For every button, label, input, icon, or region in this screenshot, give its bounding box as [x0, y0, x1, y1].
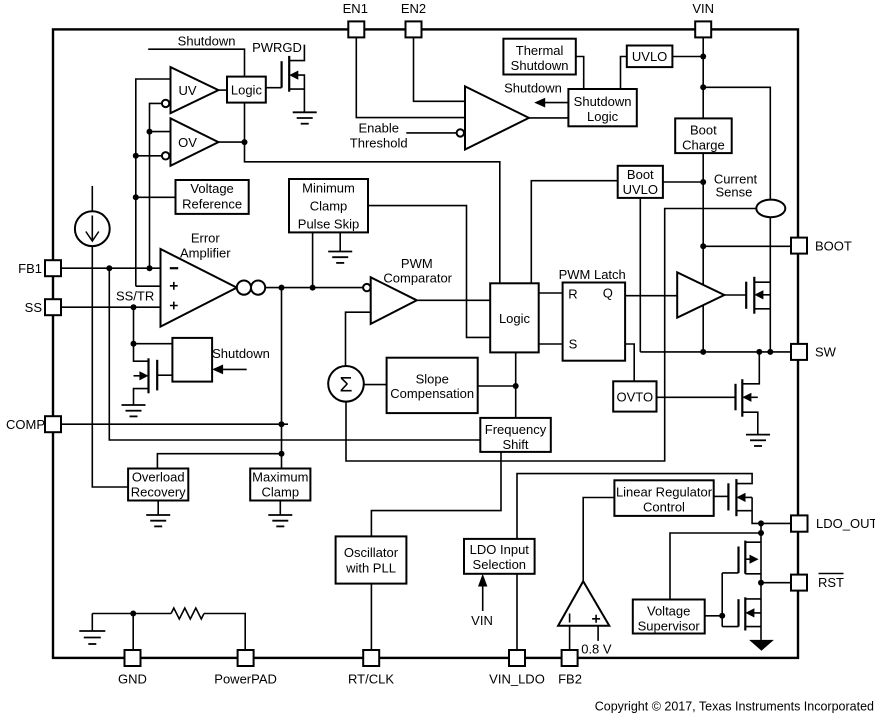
comparator U3 enable	[465, 86, 529, 149]
svg-text:PowerPAD: PowerPAD	[214, 672, 277, 687]
svg-text:Oscillator: Oscillator	[344, 545, 399, 560]
svg-text:Voltage: Voltage	[647, 604, 690, 619]
wire slope compensation output	[478, 385, 516, 387]
block LDO Input Selection	[464, 539, 535, 574]
wire shutdown FET drain	[134, 344, 149, 362]
wire voltage supervisor output to gates	[705, 573, 723, 627]
wire LDO FET source to LDO_OUT	[736, 497, 761, 523]
svg-text:SS: SS	[25, 300, 43, 315]
svg-text:Shutdown: Shutdown	[178, 34, 236, 49]
wire latch S side to OVTO	[625, 344, 634, 381]
svg-text:GND: GND	[118, 672, 147, 687]
comparator U4 input bubble	[363, 284, 370, 291]
svg-text:Frequency: Frequency	[485, 422, 547, 437]
svg-text:Shutdown: Shutdown	[511, 58, 569, 73]
wire EA output to PWM comparator	[265, 287, 363, 289]
svg-text:Logic: Logic	[499, 311, 531, 326]
svg-text:PWM: PWM	[401, 256, 433, 271]
gate driver triangle	[677, 272, 724, 317]
svg-text:UV: UV	[178, 83, 196, 98]
node SW junction 1	[700, 349, 706, 355]
wire BOOT to pin	[703, 245, 791, 247]
resistor R1 zigzag	[171, 608, 204, 619]
block Minimum Clamp Pulse Skip	[289, 179, 368, 232]
svg-text:Voltage: Voltage	[190, 181, 233, 196]
block Shutdown Logic	[568, 89, 636, 126]
op-amp U1 error amplifier	[161, 249, 237, 327]
wire OVTO output to low-side gate	[657, 396, 736, 398]
svg-text:FB2: FB2	[558, 672, 582, 687]
svg-text:OV: OV	[178, 135, 197, 150]
current source I1 arrow	[86, 216, 99, 242]
block Boot UVLO	[618, 166, 663, 198]
wire sigma to slope compensation	[364, 384, 387, 386]
wire maximum clamp ground stem	[279, 501, 281, 516]
node SS branch junction	[131, 304, 137, 310]
wire EN1 to enable comparator	[356, 37, 465, 117]
EA minus symbol	[170, 267, 178, 269]
block shutdown (SS discharge)	[172, 338, 212, 382]
wire shutdown arrow line	[541, 102, 568, 104]
comparator U6 FB2	[558, 581, 609, 626]
transistor Q5 LDO pass PMOS	[728, 479, 752, 516]
wire minimum clamp to EA output node	[312, 232, 314, 287]
svg-text:R: R	[568, 287, 577, 302]
pin RT/CLK	[363, 650, 379, 666]
pin VIN	[695, 21, 711, 37]
comparator UV input bubble	[162, 100, 169, 107]
wire OV output	[218, 141, 244, 143]
wire PWM comparator output	[417, 299, 490, 301]
wire LDO_OUT down the RST FET stack	[760, 523, 762, 640]
wire logic bottom to frequency shift	[515, 352, 517, 418]
wire SS shutdown branch	[134, 307, 173, 344]
wire UV input line A (VREF net)	[136, 79, 171, 286]
pin FB2	[562, 650, 578, 666]
EA gm output symbol circle 2	[251, 281, 265, 295]
pin GND	[125, 650, 141, 666]
wire UVLO to VIN rail	[672, 56, 703, 58]
EA plus symbol 1	[170, 282, 178, 290]
wire FB2 comparator output to linear regulator control	[583, 498, 614, 582]
wire oscillator to RT/CLK	[370, 584, 372, 650]
svg-text:RST: RST	[818, 575, 844, 590]
svg-text:SS/TR: SS/TR	[116, 289, 154, 304]
block Oscillator with PLL	[336, 536, 407, 583]
ground (GND pin area)	[79, 631, 105, 644]
svg-text:Slope: Slope	[416, 371, 449, 386]
svg-text:Compensation: Compensation	[390, 386, 474, 401]
node RST junction	[758, 580, 764, 586]
pin RST	[791, 575, 807, 591]
wire UV inverting line B (FB1 net)	[150, 103, 162, 268]
pin PowerPAD	[238, 650, 254, 666]
svg-text:Control: Control	[643, 499, 685, 514]
pin COMP	[45, 416, 61, 432]
ground (minimum clamp)	[328, 252, 352, 263]
svg-text:RT/CLK: RT/CLK	[348, 672, 394, 687]
node boot UVLO junction	[700, 179, 706, 185]
ground (overload recovery)	[146, 515, 170, 526]
node COMP junction	[279, 421, 285, 427]
arrow shutdown (into SS discharge box)	[212, 365, 247, 375]
node GND branch junction	[130, 611, 136, 617]
svg-text:Supervisor: Supervisor	[638, 618, 701, 633]
svg-text:UVLO: UVLO	[632, 49, 667, 64]
svg-text:Overload: Overload	[132, 470, 185, 485]
wire boot UVLO left to logic	[531, 181, 617, 284]
svg-text:VIN: VIN	[471, 613, 493, 628]
wire VIN rail vertical	[702, 37, 704, 352]
wire LDO_OUT to pin	[761, 522, 791, 524]
wire current sense output to summing node	[346, 209, 756, 462]
svg-text:OVTO: OVTO	[616, 389, 653, 404]
chip outline border	[53, 29, 798, 658]
node overload recovery branch junction	[279, 451, 285, 457]
svg-text:Reference: Reference	[182, 196, 242, 211]
ground (shutdown FET)	[122, 405, 146, 416]
wire thermal shutdown to shutdown logic	[576, 57, 584, 90]
svg-text:Enable: Enable	[358, 120, 398, 135]
FB2 comparator minus mark	[569, 614, 571, 623]
comparator OV input bubble	[162, 152, 169, 159]
block Logic U5	[490, 283, 539, 352]
node OV output junction	[242, 139, 248, 145]
wire shutdown FET source to ground	[134, 389, 149, 405]
transistor Q2 shutdown NMOS	[134, 358, 158, 393]
svg-text:VIN: VIN	[692, 1, 714, 16]
node EA output junction 1	[279, 285, 285, 291]
wire PWM comparator lower input from sigma	[346, 312, 371, 366]
svg-text:with PLL: with PLL	[345, 560, 396, 575]
svg-text:COMP: COMP	[6, 417, 45, 432]
svg-text:Pulse Skip: Pulse Skip	[298, 217, 359, 232]
comparator U3 input bubble	[457, 129, 464, 136]
svg-text:PWRGD: PWRGD	[252, 40, 302, 55]
wire FB1 branch to frequency shift	[109, 268, 480, 440]
wire OV top input	[150, 131, 171, 133]
svg-text:Clamp: Clamp	[262, 484, 300, 499]
svg-text:Logic: Logic	[587, 109, 619, 124]
svg-text:Comparator: Comparator	[383, 271, 452, 286]
node SW junction 2 (low-side drain)	[756, 349, 762, 355]
wire logic to latch S	[539, 343, 563, 345]
block Voltage Reference	[176, 180, 249, 214]
svg-text:Charge: Charge	[682, 138, 725, 153]
ground (PWRGD source)	[293, 112, 317, 123]
svg-text:0.8 V: 0.8 V	[581, 642, 612, 657]
wire resistor to PowerPAD	[204, 614, 245, 651]
svg-text:EN2: EN2	[401, 1, 426, 16]
node supervisor sense junction	[758, 530, 764, 536]
node FB1 branch junction	[106, 265, 112, 271]
current source I1	[75, 211, 110, 246]
node BOOT junction	[700, 243, 706, 249]
pin EN2	[406, 21, 422, 37]
svg-text:UVLO: UVLO	[623, 182, 658, 197]
block Thermal Shutdown	[503, 39, 575, 75]
svg-text:Amplifier: Amplifier	[180, 246, 231, 261]
pin SW	[791, 344, 807, 360]
node EA output junction 2 (min clamp)	[310, 285, 316, 291]
node supervisor output junction	[719, 613, 725, 619]
comparator U4 PWM	[371, 277, 417, 324]
wire VIN_LDO to LDO pass FET	[517, 474, 752, 650]
block PWM Latch	[563, 283, 626, 361]
svg-text:Clamp: Clamp	[310, 199, 348, 214]
transistor Q7 lower RST FET	[739, 597, 762, 630]
block Maximum Clamp	[250, 469, 310, 501]
arrow VIN into LDO input selection	[478, 574, 487, 611]
svg-text:Logic: Logic	[231, 82, 263, 97]
node FB1 EA input junction	[147, 265, 153, 271]
wire COMP pin	[61, 423, 288, 425]
wire GND pin branch	[132, 614, 134, 651]
pin LDO_OUT	[791, 515, 808, 531]
svg-text:Shutdown: Shutdown	[574, 94, 632, 109]
svg-text:Error: Error	[191, 231, 221, 246]
node VIN/current-sense junction	[700, 84, 706, 90]
wire LRC to LDO FET gate	[714, 495, 729, 497]
svg-text:Recovery: Recovery	[131, 484, 186, 499]
ground (maximum clamp)	[268, 515, 292, 526]
comparator UV	[171, 67, 219, 113]
block Frequency Shift	[480, 418, 551, 452]
svg-text:Minimum: Minimum	[302, 180, 355, 195]
wire VIN branch to current sense	[703, 87, 770, 199]
svg-text:Thermal: Thermal	[516, 43, 564, 58]
wire voltage supervisor sense	[670, 533, 761, 600]
svg-text:LDO_OUT: LDO_OUT	[816, 516, 875, 531]
node SW junction 3 (high-side source)	[767, 349, 773, 355]
wire FB2 pin to comparator	[569, 626, 571, 650]
svg-text:Boot: Boot	[627, 167, 654, 182]
wire current source to overload recovery	[92, 246, 128, 487]
wire enable threshold input	[406, 132, 456, 134]
transistor Q1 PWRGD PMOS	[282, 45, 305, 113]
node OV inverting input junction	[133, 153, 139, 159]
svg-text:Shutdown: Shutdown	[212, 346, 270, 361]
wire 0.8V reference stub	[597, 626, 599, 641]
node LDO_OUT junction	[758, 520, 764, 526]
svg-text:Q: Q	[603, 285, 613, 300]
wire minimum clamp ground stem	[339, 232, 341, 251]
wire low-side FET source to ground	[742, 412, 758, 434]
wire logic U2 to PWRGD gate	[266, 87, 282, 89]
block Linear Regulator Control	[614, 480, 713, 516]
transistor Q6 upper RST FET	[739, 541, 762, 574]
block Logic U2 (PWRGD logic)	[227, 77, 266, 103]
wire EA plus input	[136, 285, 161, 287]
wire lower RST FET gate lead	[722, 626, 738, 628]
svg-text:Threshold: Threshold	[350, 135, 408, 150]
pin BOOT	[791, 238, 807, 254]
svg-text:Copyright © 2017, Texas Instru: Copyright © 2017, Texas Instruments Inco…	[595, 700, 874, 714]
wire low-side FET drain	[742, 352, 759, 384]
node shutdown FET drain junction	[131, 341, 137, 347]
wire EA output down to COMP / clamps	[281, 288, 283, 469]
wire GND net	[92, 613, 171, 615]
ground (RST stack, solid triangle)	[749, 640, 774, 651]
wire OV inverting input	[136, 155, 162, 157]
svg-text:Maximum: Maximum	[252, 470, 308, 485]
wire upper RST FET gate lead	[722, 572, 738, 574]
svg-text:S: S	[569, 336, 578, 351]
svg-text:Linear Regulator: Linear Regulator	[616, 485, 713, 500]
wire Shutdown (top-left, into Logic U2)	[148, 49, 244, 76]
svg-text:Boot: Boot	[690, 123, 717, 138]
block Voltage Supervisor	[633, 600, 705, 634]
wire current source stem	[91, 186, 93, 211]
pin EN1	[348, 21, 364, 37]
wire boot UVLO right to VIN rail	[663, 181, 703, 183]
svg-text:Selection: Selection	[473, 557, 526, 572]
node slope compensation output junction	[513, 383, 519, 389]
wire EN2 to enable comparator	[414, 37, 466, 101]
svg-text:Σ: Σ	[340, 374, 353, 397]
block Overload Recovery	[128, 469, 188, 501]
wire current sense to high-side FET drain	[769, 217, 771, 352]
svg-text:PWM Latch: PWM Latch	[559, 267, 626, 282]
EA gm output symbol circle 1	[237, 281, 251, 295]
svg-text:FB1: FB1	[18, 261, 42, 276]
FB2 comparator plus mark	[592, 615, 600, 623]
pin VIN_LDO	[509, 650, 525, 666]
svg-text:Shift: Shift	[502, 437, 528, 452]
svg-text:VIN_LDO: VIN_LDO	[489, 672, 545, 687]
block Slope Compensation	[387, 358, 478, 413]
svg-text:LDO Input: LDO Input	[470, 542, 530, 557]
wire latch Q to driver	[625, 295, 677, 297]
wire shutdown FET gate lead	[157, 374, 172, 376]
pin SS	[45, 299, 61, 315]
node OV top input junction	[147, 129, 153, 135]
wire GND ground branch	[91, 614, 93, 632]
current sense element	[756, 200, 785, 218]
block Boot Charge	[675, 118, 732, 153]
wire UVLO to shutdown logic	[621, 57, 627, 90]
svg-text:Sense: Sense	[715, 184, 752, 199]
wire FB1 to error amplifier	[61, 267, 161, 269]
wire minimum clamp output to logic	[368, 206, 490, 338]
svg-text:EN1: EN1	[343, 1, 368, 16]
summing node sigma	[328, 366, 364, 402]
pin FB1	[45, 260, 61, 276]
ground (low-side source)	[746, 435, 770, 446]
svg-text:Shutdown: Shutdown	[504, 81, 562, 96]
comparator OV	[171, 118, 219, 165]
block UVLO	[627, 46, 673, 68]
wire UV output to logic	[218, 89, 227, 91]
block OVTO	[613, 381, 656, 411]
wire boot UVLO bottom to SW	[639, 198, 641, 352]
node VIN/UVLO junction	[700, 54, 706, 60]
wire logic U2 bottom / OV line to PWM logic	[245, 103, 500, 284]
wire logic to latch R	[539, 292, 563, 294]
wire SS to error amplifier	[61, 306, 161, 308]
wire overload recovery ground stem	[157, 501, 159, 516]
transistor Q3 high-side NMOS	[724, 277, 770, 314]
wire enable comparator output	[529, 117, 569, 119]
wire frequency shift to oscillator	[371, 452, 501, 537]
transistor Q4 low-side NMOS	[736, 379, 758, 417]
node voltage reference junction	[133, 194, 139, 200]
wire to overload recovery top	[157, 454, 281, 469]
EA plus symbol 2	[170, 302, 178, 310]
arrow shutdown (from shutdown logic)	[534, 98, 545, 108]
wire SW line	[640, 351, 791, 353]
svg-text:SW: SW	[815, 345, 837, 360]
wire voltage reference tap	[136, 196, 176, 198]
wire RST to pin	[761, 582, 791, 584]
svg-text:BOOT: BOOT	[815, 238, 852, 253]
